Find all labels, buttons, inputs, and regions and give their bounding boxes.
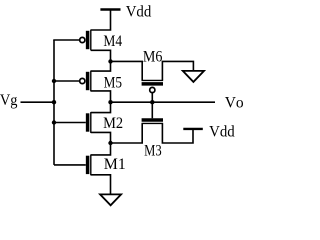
node: M2 gate junction on bus xyxy=(52,120,56,124)
ground (below M1) xyxy=(100,194,121,205)
svg-text:M3: M3 xyxy=(144,142,162,160)
ground (near M6) xyxy=(183,71,204,82)
power: Vdd rail top xyxy=(100,8,120,10)
wire: M3 source to M2/M1 node xyxy=(111,123,143,143)
transistor M3 (NMOS, horizontal) xyxy=(142,120,164,123)
svg-text:M2: M2 xyxy=(103,114,123,132)
svg-text:Vdd: Vdd xyxy=(209,123,235,141)
wire: M5 source up to node A xyxy=(91,61,111,71)
transistor M2 (NMOS) xyxy=(88,112,91,133)
wire: M4 gate lead xyxy=(53,39,79,41)
wire: M6 drain to ground xyxy=(162,61,193,80)
transistor M1 (NMOS) xyxy=(88,155,91,176)
svg-text:M4: M4 xyxy=(103,33,122,50)
wire: M6 gate stem to Vo line xyxy=(151,93,153,102)
node B: M2 source / M1 drain / M3 source xyxy=(108,141,112,145)
svg-text:M1: M1 xyxy=(104,156,126,173)
power: Vdd rail right xyxy=(183,128,203,130)
wire: M2 source down to node B xyxy=(91,132,111,143)
wire: M3 gate stem from Vo line xyxy=(151,102,153,118)
transistor M6 (PMOS, horizontal) xyxy=(142,80,164,92)
svg-text:M6: M6 xyxy=(143,49,163,66)
wire: M5 drain down to node Vo xyxy=(91,91,111,102)
wire: M1 source down to ground xyxy=(91,175,111,195)
wire: M4 source to Vdd xyxy=(91,10,111,31)
svg-text:Vg: Vg xyxy=(0,91,18,109)
node: Vg-bus junction xyxy=(52,100,56,104)
svg-text:Vo: Vo xyxy=(225,94,243,111)
wire: M1 gate lead xyxy=(54,164,86,166)
svg-text:Vdd: Vdd xyxy=(126,3,152,21)
node: M5 gate junction on bus xyxy=(52,79,56,83)
transistor M5 (PMOS) xyxy=(80,71,91,92)
wire: M4 drain down to node A xyxy=(91,50,111,61)
wire: M2 drain up to node Vo xyxy=(91,102,111,112)
wire: M2 gate lead xyxy=(54,122,86,124)
wire: M5 gate lead xyxy=(54,80,79,82)
wire: M3 drain to Vdd right xyxy=(162,123,193,143)
wire: Vg lead to bus xyxy=(21,101,55,103)
wire: Vo output line xyxy=(111,101,216,103)
wire: M1 drain up to node B xyxy=(91,143,111,155)
node: Vo line / M6-M3 gates xyxy=(150,100,154,104)
node A: M4 drain / M5 source / M6 source xyxy=(108,59,112,63)
wire: node A to M6 source xyxy=(111,61,143,80)
svg-text:M5: M5 xyxy=(104,74,122,91)
wire: gate bus vertical xyxy=(53,40,55,165)
transistor M4 (PMOS) xyxy=(80,30,91,51)
node Vo: M5 drain / M2 drain / output xyxy=(108,100,112,104)
